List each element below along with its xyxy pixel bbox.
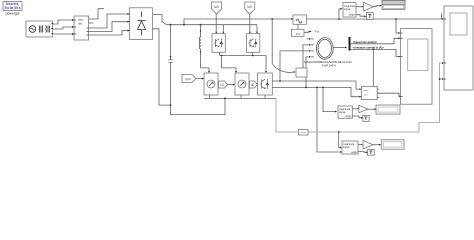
armature minus wire — [272, 87, 359, 96]
bridge input arrow C — [128, 30, 130, 32]
svg-text:signal: signal — [339, 111, 346, 114]
wire mux to scope2 port — [379, 93, 400, 96]
terminator top — [366, 12, 373, 19]
bridge input arrow A — [128, 13, 130, 15]
wire Q3 bottom — [209, 95, 211, 98]
fourier block mid — [338, 106, 352, 118]
wire sense to fourier bottom — [339, 132, 340, 148]
wire midpoint drop to Q5 — [265, 56, 267, 72]
wire speed signal — [351, 38, 399, 44]
wire bridge minus down — [153, 29, 171, 105]
wire rate block to motor TL — [304, 31, 310, 34]
wire branch to signal rail — [184, 19, 292, 25]
svg-text:[g1]: [g1] — [214, 5, 219, 9]
motor F+ stub — [307, 38, 310, 40]
IGBT Q3 — [204, 73, 218, 95]
gain triangle top — [364, 2, 374, 11]
svg-text:<Speed wm (rad/s)>: <Speed wm (rad/s)> — [353, 40, 378, 44]
gain triangle mid — [359, 105, 368, 113]
From tag g4 — [182, 75, 196, 83]
rate block — [292, 29, 305, 36]
svg-text:Ts=5e-05 s: Ts=5e-05 s — [4, 6, 20, 10]
svg-text:[g]: [g] — [221, 83, 224, 87]
scope 2 — [401, 29, 433, 105]
armature plus wire — [272, 81, 359, 89]
svg-text:[g2]: [g2] — [247, 5, 252, 9]
wire DC plus to field curve — [271, 19, 273, 63]
wire bridge plus to DC node — [153, 15, 167, 25]
input port arrow A — [72, 19, 74, 21]
terminator bottom — [368, 149, 375, 155]
IGBT Q5 — [258, 73, 273, 95]
display bottom — [381, 140, 404, 149]
sense rail wire — [276, 131, 299, 133]
svg-text:<Armature current ia (A)>: <Armature current ia (A)> — [353, 46, 385, 50]
svg-text:angle: angle — [349, 14, 356, 17]
three-phase source block — [26, 21, 53, 37]
wire collector stub Q1 — [222, 25, 224, 32]
universal diode bridge — [130, 8, 153, 40]
svg-text:signal: signal — [344, 8, 351, 11]
svg-text:5 HP 240 V: 5 HP 240 V — [322, 64, 336, 68]
node scope2 tap — [395, 18, 397, 20]
sense rail to staircase — [308, 79, 442, 132]
wire emitter Q1 — [219, 52, 221, 55]
wire collector stub Q2 — [256, 25, 258, 32]
wire motor m output — [333, 47, 345, 49]
wire bottom rail to sense rail — [275, 98, 277, 132]
capacitor C — [168, 60, 173, 62]
chopper wire inductor to Q3 — [201, 68, 210, 71]
field block — [296, 68, 307, 77]
IGBT Q4 — [235, 73, 249, 95]
wire G to rate block — [297, 24, 299, 29]
node capacitor tap — [170, 24, 172, 26]
scope 1 — [444, 6, 473, 90]
node fourier top tap — [338, 18, 340, 20]
wire Vabc stub up — [89, 9, 105, 19]
three-phase V-I measurement block — [74, 16, 89, 40]
svg-text:1.5: 1.5 — [296, 32, 301, 36]
wire gate1 — [215, 14, 217, 32]
wire Q4 bottom — [240, 95, 242, 98]
node motor A- tap — [305, 87, 307, 89]
node fourier mid tap — [322, 87, 324, 89]
svg-text:signal: signal — [343, 146, 350, 149]
node return tap — [224, 98, 226, 100]
wire measurement A to bridge — [89, 14, 128, 28]
node minus — [170, 104, 172, 106]
fourier block top — [343, 3, 356, 18]
bus selector — [349, 37, 351, 51]
wire midpoint drop to Q4 — [222, 56, 237, 72]
node sense branch — [338, 131, 340, 133]
svg-text:angle: angle — [345, 115, 352, 118]
display mid — [376, 105, 400, 114]
svg-text:Vabc: Vabc — [78, 19, 84, 22]
wire g5 to Q4 — [228, 84, 234, 86]
signal sensor block G — [293, 15, 307, 24]
wire to motor A+ — [280, 51, 309, 81]
wire emitter Q2 — [252, 52, 254, 55]
node armature plus — [279, 80, 281, 82]
chopper bottom rail — [204, 97, 276, 99]
input port arrow C — [72, 33, 74, 35]
wire measurement B to bridge — [89, 22, 128, 32]
DC plus rail — [166, 24, 257, 26]
node inductor tap — [200, 24, 202, 26]
wire Iabc stub — [89, 22, 94, 24]
display top — [382, 1, 405, 10]
fourier block bottom — [342, 141, 358, 154]
DC machine motor — [311, 38, 333, 60]
node fourier bottom tap — [316, 87, 318, 89]
capacitor branch wire — [170, 25, 172, 60]
bottom return rail — [171, 98, 226, 114]
svg-text:[g4]: [g4] — [185, 77, 190, 81]
emitter rail — [220, 55, 267, 57]
wire gate2 — [249, 14, 251, 32]
IGBT Q2 — [247, 34, 260, 53]
From tag g6 — [250, 81, 258, 88]
inline sensor block — [299, 130, 309, 136]
wire source C to measurement — [53, 33, 73, 35]
svg-text:[g]: [g] — [251, 83, 254, 87]
input port arrow B — [72, 26, 74, 28]
IGBT Q1 — [212, 34, 225, 53]
wire to motor A- — [306, 57, 309, 88]
wire to fourier top — [339, 9, 341, 19]
wire into scope1 port1 — [441, 13, 444, 19]
From tag g5 — [219, 81, 228, 88]
measurement mux block — [362, 86, 379, 99]
wire to fourier bottom — [317, 87, 340, 152]
wire field block to motor F- — [303, 45, 309, 68]
svg-text:Iabc: Iabc — [78, 23, 83, 26]
wire g4 to Q3 — [196, 78, 202, 80]
wire to scope2 port1 — [396, 19, 399, 33]
From tag g1 — [212, 2, 222, 14]
terminator mid — [363, 115, 369, 121]
smoothing inductor L — [199, 25, 201, 68]
wire into scope1 mid port — [440, 63, 442, 79]
wire measurement C to bridge — [89, 31, 128, 36]
svg-text:powergui: powergui — [6, 12, 20, 16]
gain triangle bottom — [363, 140, 373, 149]
wire current down to mux top — [372, 49, 374, 86]
powergui block — [3, 2, 22, 16]
wire to fourier mid — [323, 87, 335, 111]
wire source A to measurement — [53, 20, 73, 24]
signal rail continue — [307, 18, 442, 20]
wire Q5 bottom — [264, 95, 266, 98]
wire current signal — [351, 49, 399, 56]
wire source B to measurement — [53, 27, 73, 29]
node current to mux — [372, 49, 374, 51]
svg-text:angle: angle — [351, 151, 358, 154]
bridge input arrow B — [128, 21, 130, 23]
From tag g2 — [245, 2, 255, 14]
svg-text:Par: Par — [315, 30, 319, 34]
